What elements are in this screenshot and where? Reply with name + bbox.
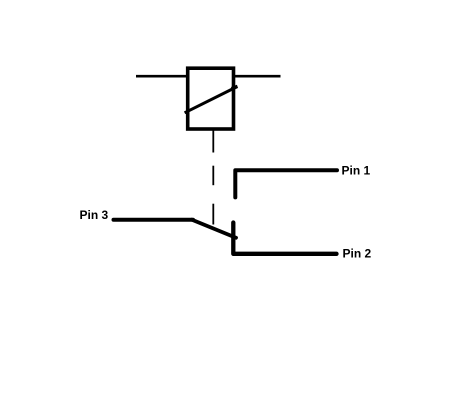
svg-text:Pin 3: Pin 3 [80, 208, 109, 222]
svg-text:Pin 1: Pin 1 [342, 164, 371, 178]
svg-text:Pin 2: Pin 2 [343, 246, 372, 260]
pin 2 terminal (normally-closed contact): vertical stub + wire [233, 223, 336, 254]
dashed actuator linkage, segment 2 [212, 166, 214, 186]
pin 1 terminal (normally-open contact): vertical stub + wire [235, 170, 337, 197]
dashed actuator linkage, segment 3 [212, 204, 214, 225]
relay coil K1 (rectangle body) [188, 68, 234, 129]
relay coil diagonal end nub [232, 86, 238, 88]
relay coil diagonal stroke [185, 87, 237, 113]
dashed actuator linkage (mechanical link), segment 1 [212, 131, 214, 153]
switch arm (common pole to pin 2) [192, 220, 236, 238]
pin 3 wire (common) [114, 218, 194, 222]
wire: coil right terminal [234, 75, 281, 78]
wire: coil left terminal [136, 75, 190, 78]
